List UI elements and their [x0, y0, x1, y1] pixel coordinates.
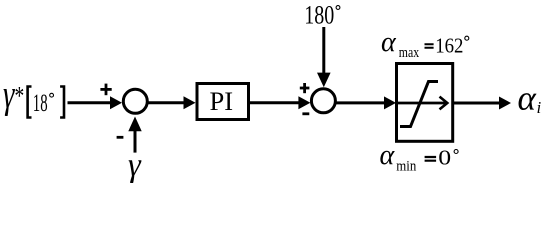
node alpha_i output label — [518, 78, 542, 117]
wire S1 to PI block — [147, 101, 186, 104]
wire 180° down into S2 — [322, 27, 325, 73]
arrowhead into limiter — [384, 96, 396, 109]
minus sign at S1 — [117, 136, 124, 139]
svg-text:162: 162 — [435, 33, 463, 57]
plus sign at S1 — [100, 84, 111, 96]
wire S2 to limiter — [335, 101, 386, 104]
plus sign at S2 — [300, 83, 310, 93]
label alpha_min = 0° — [380, 140, 459, 174]
saturation curve — [400, 82, 438, 127]
summing junction S1 — [123, 89, 147, 113]
limiter internal axis arrow — [398, 102, 446, 105]
arrowhead into S1 — [110, 96, 122, 109]
svg-text:0: 0 — [438, 146, 451, 170]
svg-text:max: max — [399, 45, 420, 61]
arrowhead up into S1 — [128, 117, 141, 132]
wire PI to summing junction S2 — [250, 101, 300, 104]
block PI controller — [197, 84, 249, 120]
node gamma-ref input label γ*[18°] — [3, 72, 64, 118]
arrowhead into S2 — [298, 96, 310, 109]
svg-text:*: * — [15, 82, 25, 110]
minus sign at S2 — [302, 112, 309, 115]
svg-text:α: α — [381, 27, 397, 58]
svg-text:γ: γ — [128, 146, 142, 184]
svg-text:γ: γ — [3, 72, 15, 117]
svg-text:18: 18 — [33, 90, 48, 117]
arrowhead output — [499, 97, 511, 110]
label alpha_max = 162° — [381, 27, 469, 61]
wire from gamma-ref to summing junction S1 — [68, 101, 113, 104]
svg-text:180: 180 — [304, 0, 334, 29]
svg-text:PI: PI — [210, 86, 234, 116]
wire gamma feedback vertical — [134, 131, 137, 153]
arrowhead down into S2 — [317, 73, 331, 88]
svg-text:i: i — [537, 98, 542, 117]
svg-text:α: α — [380, 140, 396, 171]
summing junction S2 — [311, 89, 335, 113]
block limiter (saturation) — [397, 64, 453, 142]
svg-text:min: min — [396, 158, 416, 174]
svg-text:α: α — [518, 78, 537, 117]
arrowhead into PI — [184, 96, 196, 109]
wire limiter to output — [454, 102, 500, 105]
